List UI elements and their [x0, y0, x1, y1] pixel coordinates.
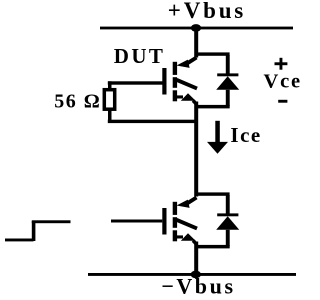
svg-text:56 Ω: 56 Ω [54, 91, 101, 113]
transistor Q2: emitter arrow [177, 233, 197, 244]
Ice current arrow [207, 121, 228, 154]
wire: Q2 emitter drop to -Vbus rail [194, 242, 198, 275]
wire: gate loop top (gate to resistor) [108, 81, 163, 84]
svg-text:+Vbus: +Vbus [168, 0, 246, 23]
diode D1 (top freewheel): upper lead [226, 55, 230, 74]
junction dot on -Vbus rail [191, 271, 201, 279]
transistor Q1 (DUT): channel segment bottom [173, 90, 177, 101]
gate pulse waveform symbol [5, 220, 71, 241]
transistor Q1 (DUT): gate bar [162, 68, 166, 95]
svg-text:DUT: DUT [114, 44, 166, 68]
wire: resistor top lead [108, 81, 112, 88]
diode D2: cathode bar [217, 213, 238, 216]
wire: bottom -Vbus rail [88, 273, 296, 276]
diode D2: lower lead [226, 230, 230, 246]
diode D1: triangle [216, 76, 239, 90]
wire: branch to top diode (collector side) [196, 52, 230, 55]
transistor Q2: channel segment top [173, 202, 177, 215]
transistor Q2: body diagonal [177, 220, 198, 229]
Vce plus sign [275, 58, 288, 70]
wire: emitter drop / midpoint line down to lower device [194, 102, 198, 197]
resistor 56 ohm body [104, 90, 114, 110]
diode D2 (bottom freewheel): upper lead [226, 195, 230, 214]
wire: diode D2 return to emitter [196, 245, 230, 249]
transistor Q2: channel segment middle [173, 217, 177, 228]
wire: collector drop from +Vbus to DUT [194, 28, 198, 58]
Vce minus sign [278, 100, 287, 103]
wire: top +Vbus rail [100, 27, 293, 30]
diode D2: triangle [216, 216, 239, 230]
wire: gate loop bottom (resistor to emitter) [108, 120, 197, 123]
transistor Q2 (lower switch): collector diagonal with arrow [177, 198, 197, 208]
wire: branch to bottom diode (collector side) [196, 192, 230, 195]
transistor Q1 (DUT): channel segment middle [173, 77, 177, 88]
diode D1: cathode bar [217, 73, 238, 76]
transistor Q1 (DUT): collector diagonal with arrow [177, 58, 197, 68]
svg-text:Vce: Vce [264, 71, 301, 93]
svg-text:−Vbus: −Vbus [161, 274, 235, 299]
wire: resistor bottom lead [108, 111, 112, 122]
diode D1: lower lead [226, 90, 230, 106]
junction dot on +Vbus rail [191, 24, 201, 32]
transistor Q1 (DUT): channel segment top [173, 62, 177, 75]
transistor Q1 (DUT): body diagonal [177, 80, 198, 89]
svg-text:Ice: Ice [230, 123, 261, 147]
transistor Q2: gate bar [162, 208, 166, 235]
transistor Q2: channel segment bottom [173, 230, 177, 241]
wire: diode D1 return to emitter [196, 105, 230, 109]
wire: Q2 gate lead [111, 220, 162, 223]
transistor Q1 (DUT): emitter arrow [177, 93, 197, 104]
